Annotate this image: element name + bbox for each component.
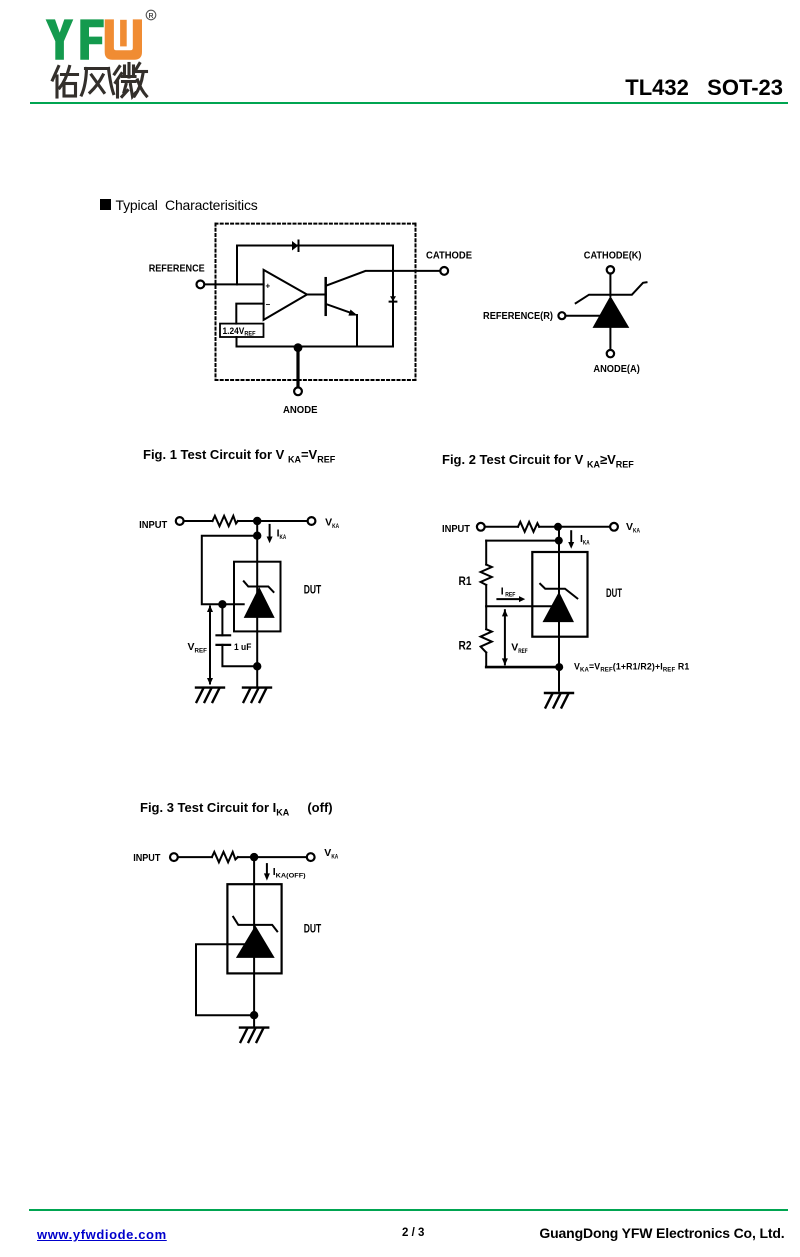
- svg-text:VKA: VKA: [324, 847, 338, 861]
- svg-text:VKA: VKA: [626, 521, 640, 535]
- svg-text:+: +: [266, 282, 271, 291]
- svg-text:CATHODE: CATHODE: [426, 249, 472, 261]
- svg-text:ANODE(A): ANODE(A): [593, 364, 639, 375]
- svg-text:VREF: VREF: [511, 641, 528, 655]
- svg-text:VREF: VREF: [188, 641, 207, 655]
- svg-text:IKA(OFF): IKA(OFF): [273, 866, 306, 880]
- svg-text:VKA=VREF(1+R1/R2)+IREF R1: VKA=VREF(1+R1/R2)+IREF R1: [574, 662, 689, 674]
- svg-text:INPUT: INPUT: [442, 523, 471, 535]
- svg-text:IREF: IREF: [501, 586, 516, 599]
- svg-text:INPUT: INPUT: [133, 852, 161, 864]
- svg-text:1 uF: 1 uF: [234, 642, 252, 653]
- svg-text:REFERENCE: REFERENCE: [149, 263, 205, 275]
- svg-text:DUT: DUT: [304, 583, 322, 597]
- svg-text:INPUT: INPUT: [139, 519, 168, 531]
- svg-text:IKA: IKA: [277, 527, 287, 541]
- svg-text:R1: R1: [459, 574, 472, 588]
- svg-text:DUT: DUT: [304, 922, 322, 936]
- svg-text:REFERENCE(R): REFERENCE(R): [483, 311, 553, 322]
- svg-text:1.24VREF: 1.24VREF: [223, 326, 256, 338]
- svg-text:R2: R2: [459, 639, 472, 653]
- svg-text:VKA: VKA: [325, 517, 339, 531]
- svg-text:CATHODE(K): CATHODE(K): [584, 250, 642, 261]
- svg-text:DUT: DUT: [606, 586, 622, 600]
- svg-text:IKA: IKA: [580, 533, 590, 547]
- svg-text:−: −: [266, 300, 271, 309]
- svg-text:ANODE: ANODE: [283, 404, 318, 416]
